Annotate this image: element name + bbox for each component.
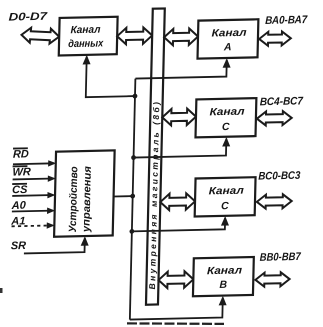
bidirectional arrow data channel to internal bus — [117, 27, 152, 44]
input wire RD to control unit — [13, 162, 54, 165]
bidirectional arrow channel C upper to port BC4-BC7 — [257, 111, 292, 126]
box: channel A (Канал A) — [198, 19, 259, 58]
svg-text:ВС0-ВС3: ВС0-ВС3 — [258, 170, 300, 183]
bidirectional arrow bus to channel C upper — [162, 108, 196, 125]
svg-text:RD: RD — [13, 148, 29, 160]
box: data channel (Канал данных) — [59, 17, 118, 56]
svg-text:Канал: Канал — [209, 185, 245, 198]
bidirectional arrow D0-D7 to data channel — [21, 27, 60, 44]
svg-text:A0: A0 — [11, 200, 27, 212]
svg-text:Канал: Канал — [207, 264, 243, 277]
input wire A1 to control unit — [12, 224, 53, 227]
bidirectional arrow channel A to port BA — [259, 31, 291, 46]
svg-text:С: С — [221, 200, 229, 212]
bidirectional arrow bus to channel C lower — [160, 193, 195, 210]
input wire A0 to control unit — [12, 210, 53, 213]
svg-text:С: С — [222, 121, 230, 133]
input wire CS to control unit — [12, 194, 53, 197]
svg-text:А: А — [223, 41, 232, 53]
wire SR to control unit bottom — [24, 238, 85, 253]
overline of WR — [13, 165, 28, 167]
internal bus box (Внутренняя магистраль) — [146, 8, 165, 304]
svg-text:Канал: Канал — [70, 24, 101, 37]
overline of RD — [13, 147, 28, 149]
wire: control unit to trunk — [114, 195, 133, 197]
stray mark left edge — [0, 288, 3, 293]
wire: trunk top to channel A — [135, 60, 226, 79]
junction dot at control unit branch — [130, 194, 135, 199]
junction dot at data-channel branch — [133, 94, 138, 99]
box: control unit (Устройство управления) — [54, 150, 115, 236]
overline of CS — [12, 183, 27, 185]
broken rule at bottom edge — [127, 322, 224, 325]
box: channel B (Канал B) — [193, 257, 254, 296]
svg-text:Канал: Канал — [211, 27, 247, 40]
junction dot at channel C upper branch — [131, 155, 136, 160]
svg-text:управления: управления — [80, 166, 94, 233]
box: channel C lower (Канал C) — [195, 177, 256, 216]
wire: trunk to channel C lower — [132, 218, 225, 232]
box: channel C upper (Канал C) — [196, 98, 257, 137]
svg-text:Канал: Канал — [209, 106, 245, 119]
svg-text:D0-D7: D0-D7 — [8, 11, 48, 24]
input wire WR to control unit — [13, 178, 54, 181]
svg-text:В: В — [219, 279, 227, 291]
svg-text:SR: SR — [11, 240, 27, 252]
wire: vertical trunk — [130, 79, 136, 320]
wire: trunk to data channel — [86, 56, 136, 98]
junction dot at channel C lower branch — [129, 229, 134, 234]
svg-text:ВА0-ВА7: ВА0-ВА7 — [265, 14, 308, 27]
bidirectional arrow bus to channel A — [164, 28, 198, 45]
svg-text:CS: CS — [12, 184, 28, 196]
svg-text:WR: WR — [12, 166, 31, 178]
bidirectional arrow channel B to port BB0-BB7 — [255, 272, 290, 287]
bidirectional arrow channel C lower to port BC0-BC3 — [257, 194, 292, 209]
svg-text:Устройство: Устройство — [67, 166, 81, 233]
wire: trunk bottom to channel B — [130, 298, 223, 320]
svg-text:данных: данных — [68, 37, 104, 50]
svg-text:ВВ0-ВВ7: ВВ0-ВВ7 — [260, 251, 302, 264]
svg-text:ВС4-ВС7: ВС4-ВС7 — [260, 95, 304, 108]
bidirectional arrow bus to channel B — [158, 271, 193, 288]
wire: trunk to channel C upper — [134, 139, 227, 158]
